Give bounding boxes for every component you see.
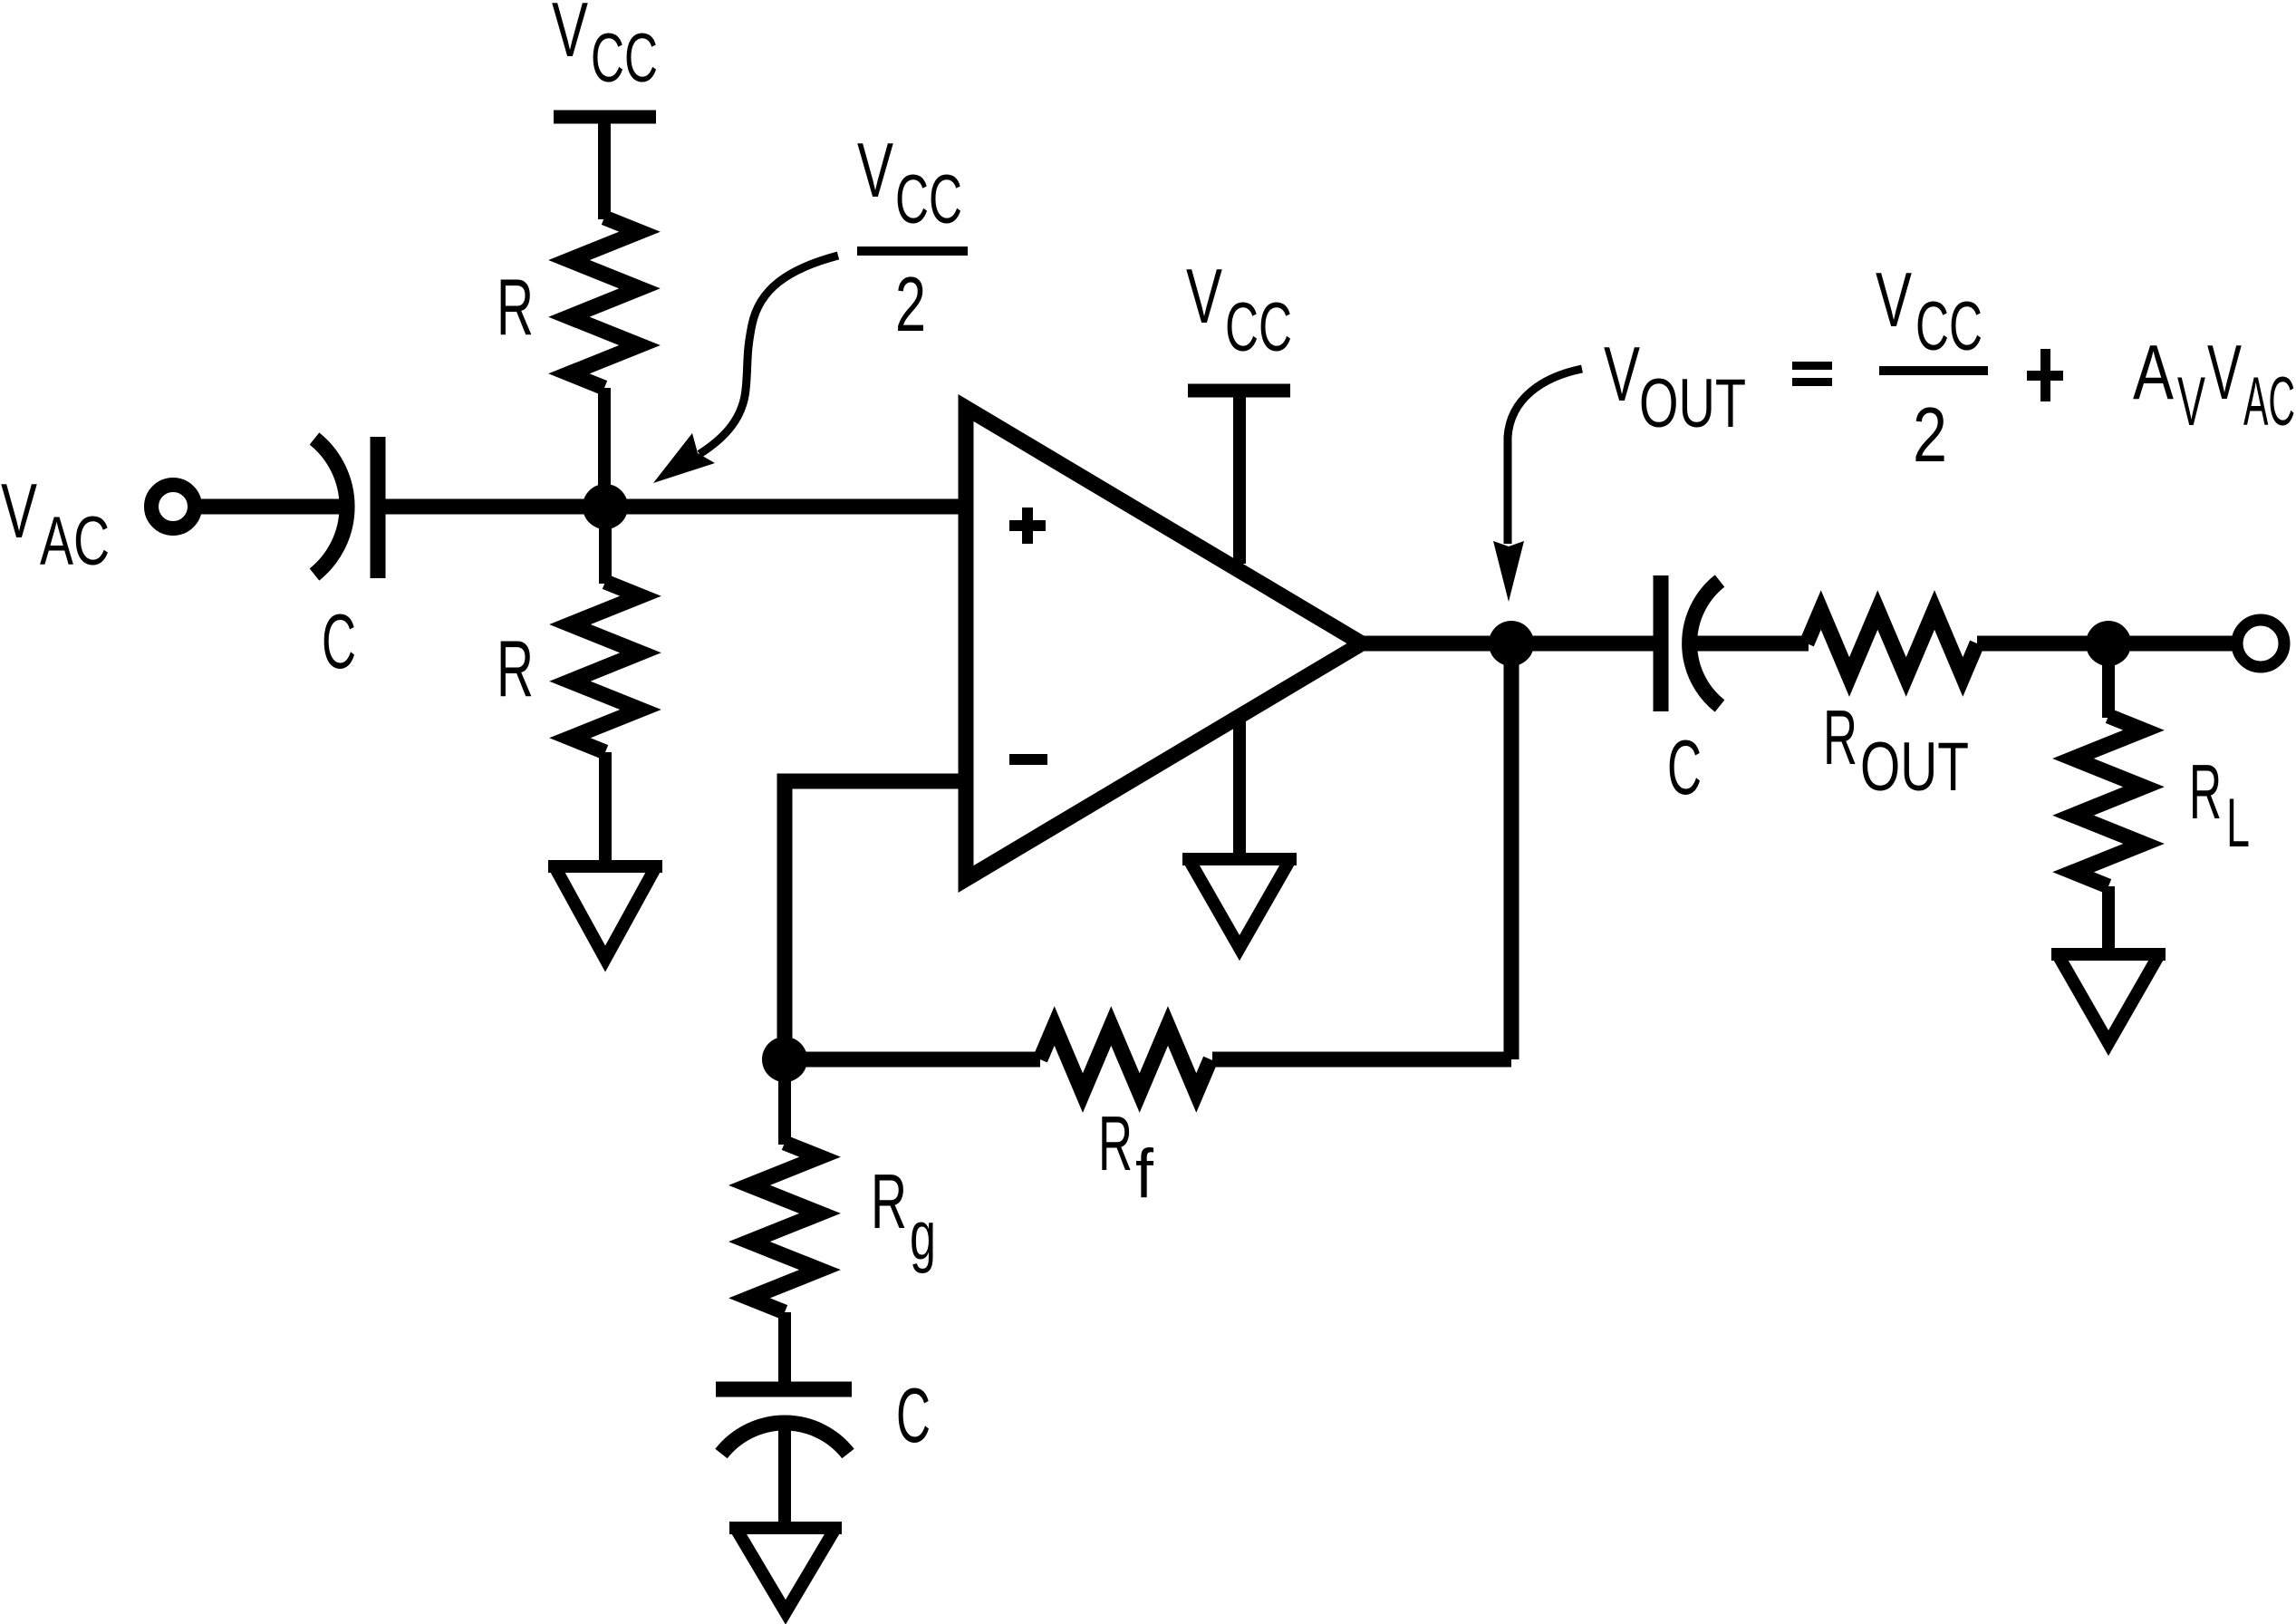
equals sign (1792, 362, 1832, 370)
svg-text:V: V (1604, 332, 1640, 418)
svg-text:V: V (1186, 254, 1222, 340)
svg-text:CC: CC (591, 20, 658, 97)
capacitor C1 flat plate (371, 437, 386, 578)
node B output junction dot (1489, 621, 1534, 666)
svg-text:V: V (2177, 363, 2205, 440)
wire op-amp bottom to ground (1233, 720, 1246, 854)
svg-text:CC: CC (1225, 289, 1292, 366)
ground bar below RL (2051, 948, 2166, 961)
op-amp minus sign (1009, 754, 1047, 765)
svg-text:R: R (871, 1159, 907, 1245)
capacitor C2 curved plate (1690, 581, 1720, 706)
node D inverting input junction dot (762, 1037, 807, 1082)
svg-text:V: V (1876, 257, 1912, 343)
svg-text:L: L (2226, 785, 2250, 862)
svg-text:C: C (1667, 725, 1702, 811)
ground bar below C3 (729, 1522, 842, 1534)
resistor R upper zigzag (569, 217, 640, 388)
VCC supply bar left (554, 111, 656, 124)
svg-text:C: C (322, 599, 356, 685)
resistor Rf zigzag (1040, 1026, 1211, 1093)
wire VCC bar to op-amp top (1233, 397, 1246, 564)
svg-text:CC: CC (895, 161, 962, 238)
leader arrow to node B shaft (1508, 369, 1582, 544)
wire C3 to ground (778, 1425, 791, 1524)
wire R lower to ground (599, 752, 612, 864)
resistor Rg zigzag (749, 1143, 820, 1312)
svg-text:f: f (1135, 1136, 1154, 1213)
svg-text:AC: AC (2243, 363, 2295, 440)
wire Rg to capacitor C3 (778, 1312, 791, 1382)
fraction bar in equation (1879, 366, 1988, 375)
capacitor C3 curved plate (721, 1423, 848, 1454)
node C load junction dot (2086, 621, 2131, 666)
ground triangle below RL (2059, 956, 2158, 1043)
VCC supply bar at op-amp (1188, 384, 1290, 398)
ground triangle at op-amp (1190, 861, 1289, 948)
svg-text:R: R (497, 623, 534, 713)
capacitor C2 flat plate (1654, 575, 1669, 711)
op-amp U1 triangle (966, 408, 1362, 879)
svg-text:C: C (896, 1373, 931, 1459)
svg-text:R: R (1098, 1101, 1133, 1187)
wire feedback horizontal left segment (785, 1052, 1040, 1068)
fraction bar of VCC/2 (857, 246, 968, 256)
svg-text:R: R (2189, 749, 2222, 836)
svg-text:g: g (910, 1197, 936, 1274)
wire C1 to node A (385, 499, 605, 515)
op-amp plus sign (1009, 507, 1046, 544)
svg-text:A: A (2133, 330, 2174, 416)
svg-text:CC: CC (1915, 288, 1982, 365)
svg-text:R: R (497, 262, 534, 352)
wire VAC terminal to C1 (201, 499, 346, 515)
wire op-amp minus input (785, 781, 966, 1059)
node A junction dot (583, 484, 628, 529)
svg-text:R: R (1823, 695, 1857, 781)
wire feedback horizontal right segment (1212, 1052, 1511, 1068)
resistor R lower zigzag (570, 582, 641, 752)
node VAC input terminal (151, 485, 195, 528)
wire node A to op-amp + input (605, 499, 966, 515)
svg-text:2: 2 (895, 262, 926, 348)
ground bar at op-amp (1182, 853, 1297, 865)
wire node A to resistor R lower (599, 507, 612, 584)
svg-text:OUT: OUT (1860, 729, 1969, 806)
wire ROUT to output terminal (1977, 636, 2233, 652)
wire op-amp output to C2 (1364, 636, 1654, 652)
svg-text:V: V (857, 128, 893, 214)
svg-text:V: V (552, 0, 588, 73)
svg-text:OUT: OUT (1639, 365, 1746, 442)
ground triangle below C3 (737, 1530, 834, 1612)
ground bar below R lower (548, 860, 662, 873)
wire feedback from node B down (1504, 643, 1519, 1059)
svg-text:V: V (1, 469, 37, 555)
resistor ROUT zigzag (1807, 610, 1977, 677)
wire C2 to resistor ROUT (1687, 636, 1809, 652)
capacitor C1 curved plate (314, 439, 347, 575)
wire R upper to node A (598, 388, 611, 507)
ground triangle below R lower (555, 868, 655, 959)
node output terminal (2237, 620, 2284, 667)
wire node D to resistor Rg (778, 1059, 791, 1145)
svg-text:AC: AC (40, 503, 110, 580)
svg-text:2: 2 (1913, 392, 1947, 478)
wire node C to resistor RL (2102, 643, 2115, 718)
leader arrowhead at node B (1493, 541, 1524, 602)
leader arrowhead at node A (653, 433, 715, 483)
wire RL to ground (2102, 886, 2115, 951)
leader arrow to node A shaft (699, 256, 838, 454)
capacitor C3 flat plate (716, 1382, 852, 1397)
svg-text:V: V (2207, 330, 2242, 416)
resistor RL zigzag (2073, 716, 2144, 886)
plus sign in equation (2027, 371, 2063, 381)
wire VCC bar to resistor R upper (598, 123, 611, 219)
